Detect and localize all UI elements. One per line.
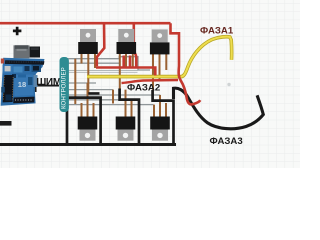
Arduino controller board U1 (1, 45, 45, 106)
svg-text:ФАЗА3: ФАЗА3 (210, 136, 243, 147)
stray gray dot artifact (227, 83, 230, 86)
svg-text:ФАЗА1: ФАЗА1 (200, 26, 234, 37)
svg-text:18: 18 (18, 80, 26, 89)
svg-text:ШИМ: ШИМ (36, 77, 61, 88)
top header strip (5, 60, 45, 65)
tiny bits left edge (1, 59, 4, 64)
wire: white signal wire G3 (67, 70, 138, 72)
wire: red drop between Q1 and Q2 (97, 23, 105, 66)
svg-text:КОНТРОЛЛЕР: КОНТРОЛЛЕР (60, 67, 67, 109)
wire: red lower wavy segment (122, 80, 179, 83)
wire: gray signal wire G1 (controller to T3 gate, stepped) (67, 57, 150, 70)
transistor Q1 legs (82, 54, 96, 94)
transistor Q5 (bottom row, mirrored) (116, 117, 136, 141)
wire: red right rail with hook (phase 2 lead) (171, 23, 201, 104)
transistor Q4 legs (82, 83, 94, 117)
USB connector (14, 45, 30, 58)
wire: red U loop at Q2 (124, 56, 130, 68)
wire: black frame around Q6 (153, 90, 174, 144)
small caps (28, 77, 33, 85)
wire: black phase 3 curve with hook (174, 88, 264, 129)
wire: yellow PWM wire to phase 1 hook (87, 37, 232, 77)
misc small components row (5, 66, 11, 71)
wire: gray signal wire G6 (to T6 middle gate) (67, 94, 160, 96)
wire: black link from Q1 middle leg to Q4 frame (88, 92, 99, 95)
wire: tan drop wire from controller to Q4 area (74, 59, 76, 104)
wire: red +bus top rail (0, 22, 171, 25)
wire: gray signal wire G7 (lowest, to T6 left) (67, 104, 154, 106)
wire: gray signal wire G4 (67, 82, 96, 84)
transistor Q6 legs (154, 95, 166, 117)
label plus sign (13, 27, 22, 36)
transistor Q1 (top row) (78, 29, 98, 54)
controller tag КОНТРОЛЛЕР (60, 57, 69, 112)
wire: black stub at left edge (0, 121, 12, 126)
board PCB (1, 58, 45, 106)
background graph paper (0, 0, 300, 168)
transistor Q5 legs (113, 90, 132, 117)
wire: black frame around Q4 (67, 98, 101, 144)
wire: black frame around Q5 (120, 89, 139, 145)
transistor Q3 legs (153, 54, 166, 90)
wire: red drop between Q2 and Q3 (134, 23, 137, 66)
svg-text:ФАЗА2: ФАЗА2 (127, 82, 160, 93)
transistor Q2 legs (120, 54, 133, 90)
wire: red horizontal mid rail (96, 68, 155, 76)
board lighter patches (14, 75, 34, 97)
bottom header strip (13, 97, 34, 104)
power jack (30, 47, 40, 58)
wire: gray signal wire G2 (controller to T2 left leg) (67, 62, 121, 64)
wire: black ground bus (0, 143, 176, 146)
transistor Q4 (bottom row, mirrored) (78, 117, 98, 141)
transistor Q3 (top row) (150, 29, 170, 54)
wire: gray signal wire G8 (67, 99, 132, 101)
DIP IC chip (3, 75, 14, 102)
transistor Q6 (bottom row, mirrored) (150, 117, 170, 141)
wire: gray signal wire G5 (67, 89, 113, 91)
wire: black PWM link from Arduino to controller tag (36, 86, 59, 92)
transistor Q2 (top row) (117, 29, 137, 54)
